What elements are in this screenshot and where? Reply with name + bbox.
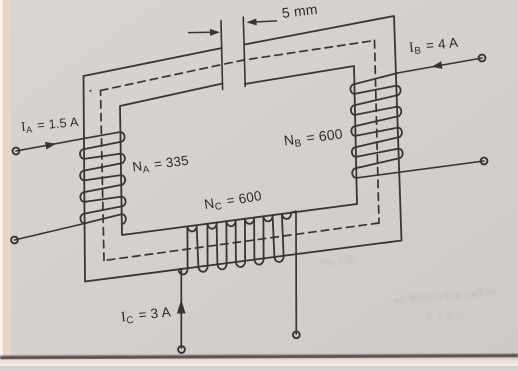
terminal IC (178, 346, 185, 353)
terminal IA (13, 148, 20, 155)
wire lower-left terminal (15, 223, 85, 240)
left pinkish page edge band (3, 0, 11, 366)
terminal IB (479, 55, 486, 62)
wire lower-right terminal (356, 161, 484, 178)
bottom dark page shadow line (0, 354, 518, 360)
air-gap right edge / dimension tick (243, 17, 245, 87)
stray dot near dashed corner (89, 90, 91, 92)
dashed mean flux path (101, 41, 375, 91)
wire IB input (398, 58, 483, 73)
coil NC winding on bottom limb (178, 211, 296, 274)
terminal bottom-centre (293, 331, 300, 338)
wire IC input (180, 269, 182, 348)
arrowhead IB (432, 61, 443, 69)
air-gap left edge / dimension tick (221, 21, 223, 90)
coil NA winding on left limb (80, 132, 126, 224)
terminal lower-right (481, 158, 488, 165)
coil NB winding on right limb (350, 73, 402, 178)
bottom below-shadow strip (0, 357, 518, 366)
terminal lower-left (11, 237, 18, 244)
bleed-through ghost text (319, 254, 496, 323)
wire bottom-centre terminal (295, 211, 297, 334)
dimension arrow left of gap (189, 31, 213, 33)
wire IA input (16, 132, 120, 151)
arrowhead IA (45, 142, 56, 150)
arrowhead IC (177, 300, 186, 314)
left page-edge white sliver (0, 0, 3, 366)
magnetic core inner outline (120, 66, 357, 235)
magnetic core outer outline (84, 16, 402, 282)
dimension arrow right of gap (247, 18, 257, 25)
